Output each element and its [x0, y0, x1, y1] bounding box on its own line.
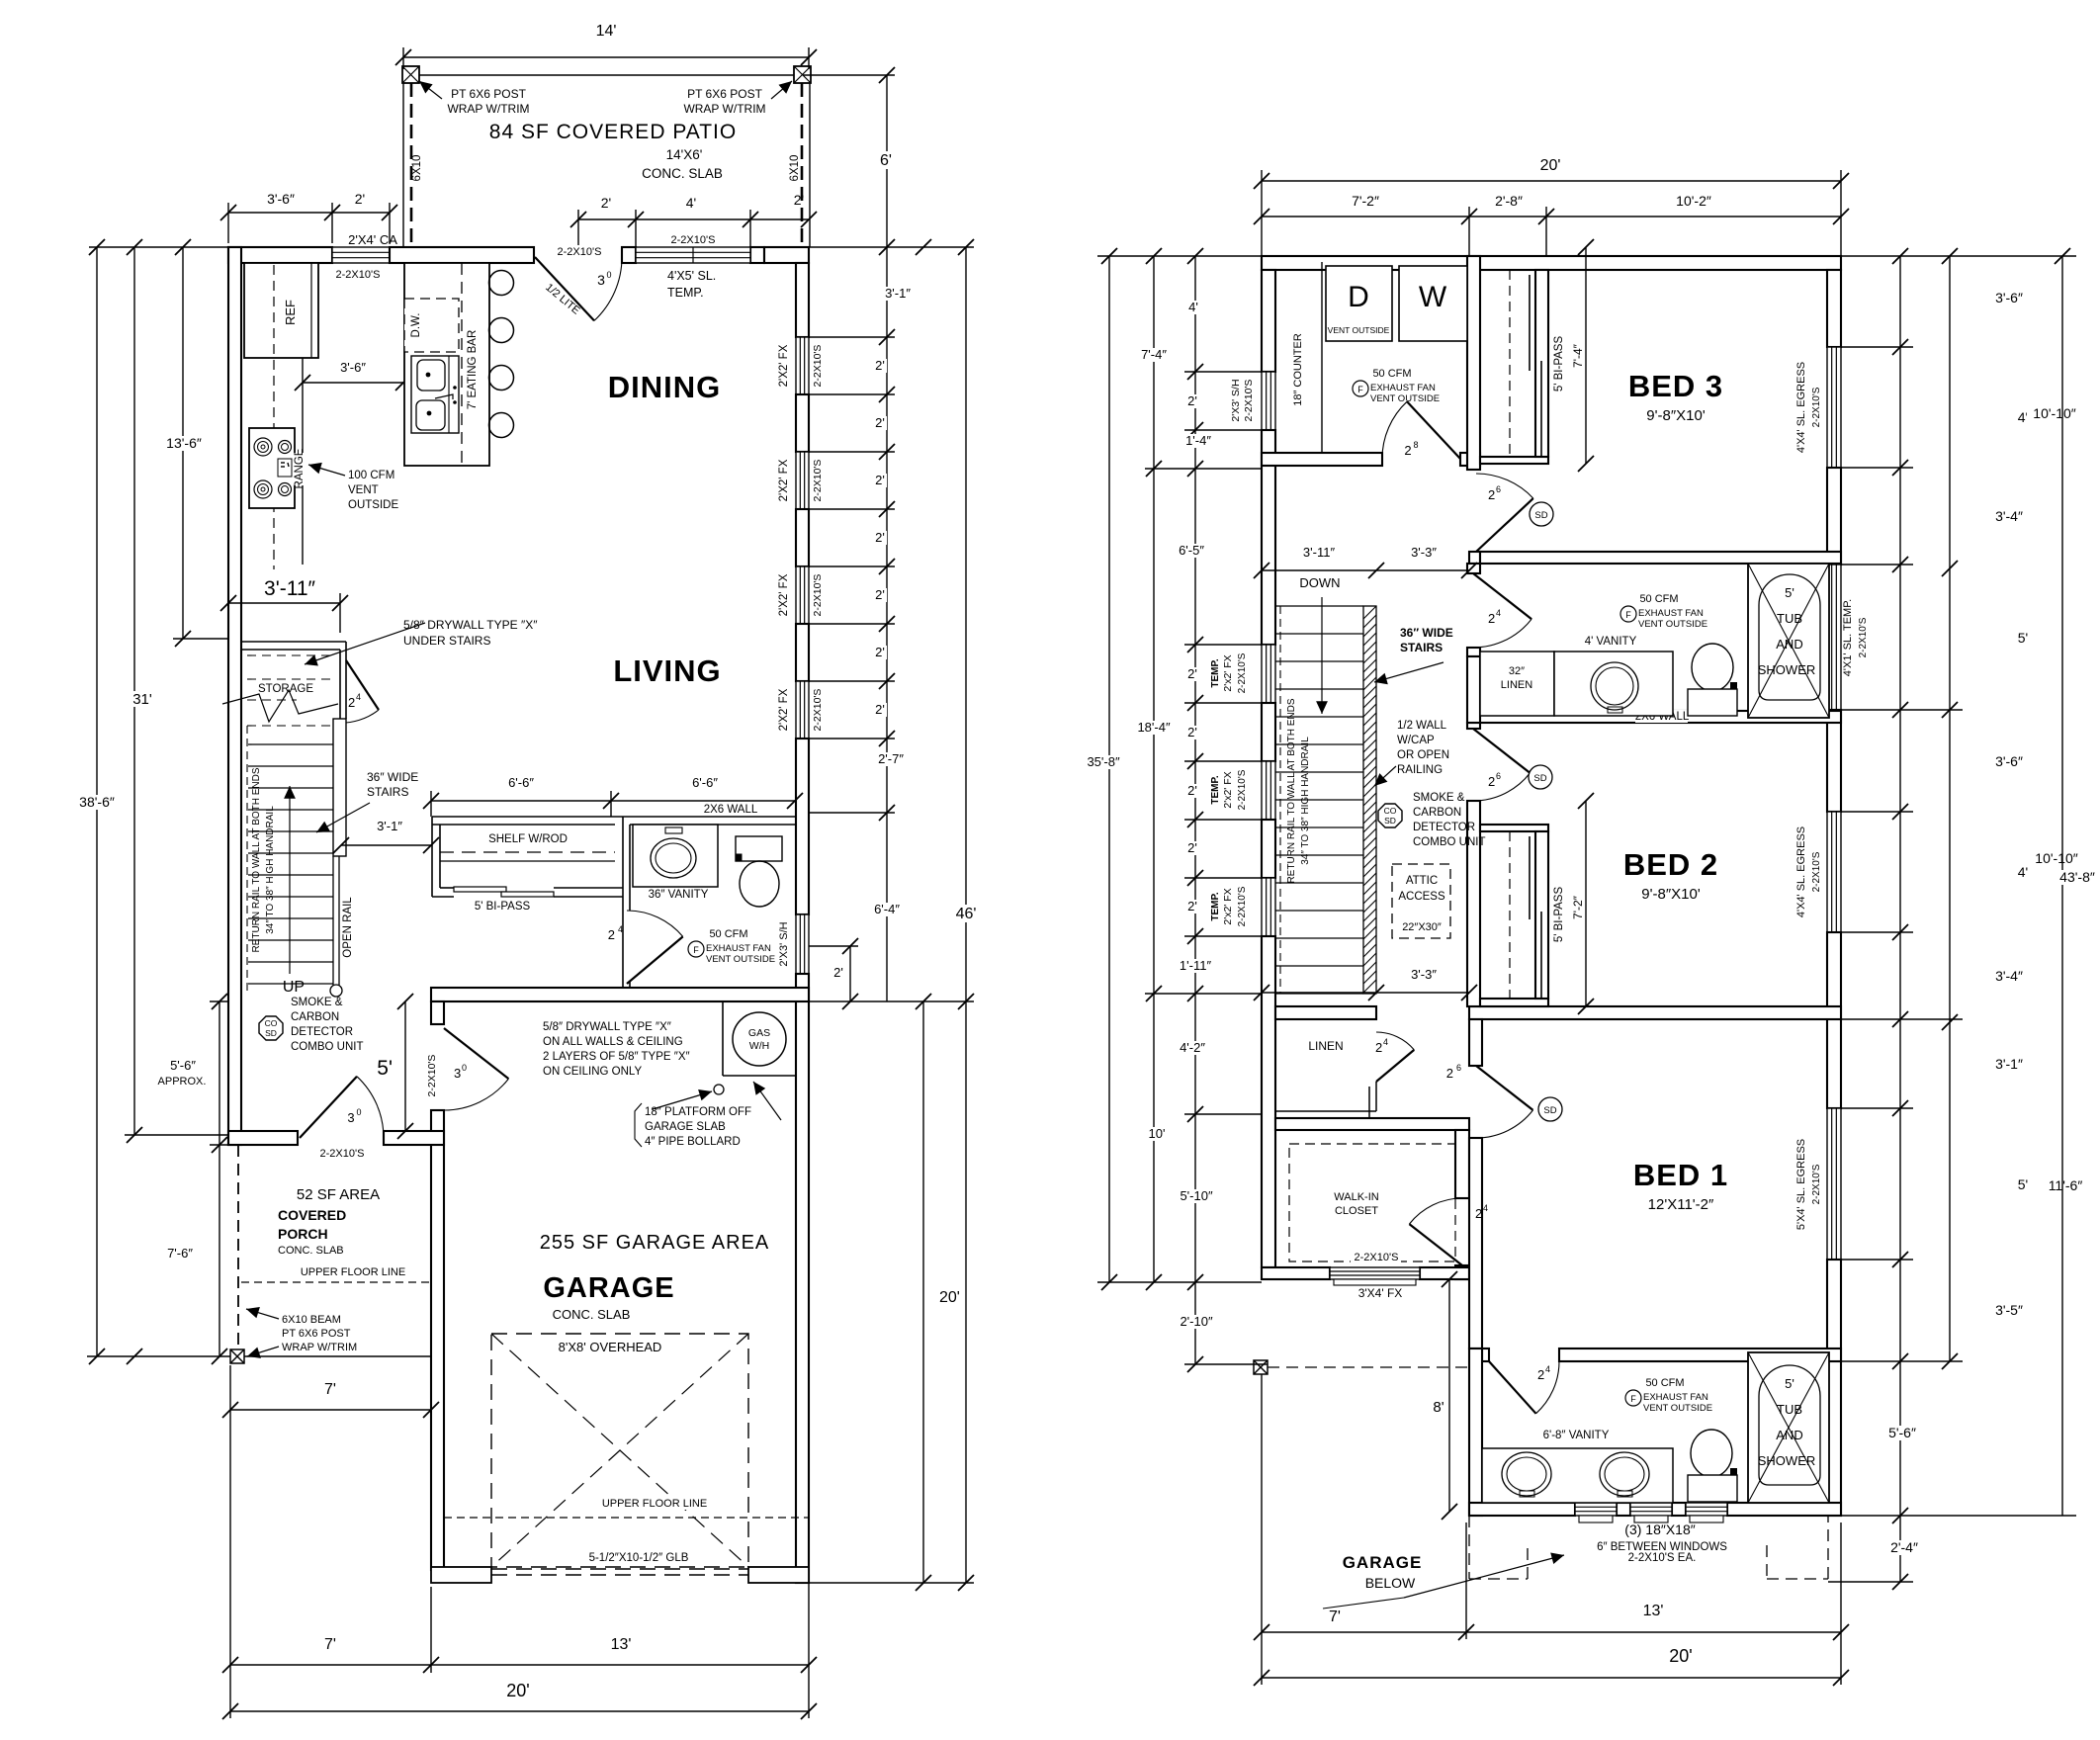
svg-text:APPROX.: APPROX. — [158, 1076, 207, 1087]
dim col x1922 — [1899, 256, 1901, 1582]
porch post X box — [230, 1349, 244, 1363]
label 18'-4 — [1131, 721, 1176, 735]
svg-text:35'-8″: 35'-8″ — [1087, 754, 1120, 769]
svg-text:2-2X10'S: 2-2X10'S — [558, 246, 602, 258]
svg-text:2'X3' S/H: 2'X3' S/H — [778, 921, 790, 966]
island sink outer — [411, 356, 459, 433]
svg-text:2'x2' FX: 2'x2' FX — [1222, 771, 1234, 808]
ext lines right rp — [1841, 255, 2076, 257]
svg-text:0: 0 — [606, 270, 611, 280]
svg-text:2: 2 — [348, 695, 355, 710]
svg-text:W: W — [1419, 281, 1447, 313]
garage top wall — [431, 988, 809, 1001]
svg-text:4″ PIPE BOLLARD: 4″ PIPE BOLLARD — [645, 1136, 741, 1148]
svg-text:11'-6″: 11'-6″ — [2049, 1177, 2083, 1193]
porch top wall left — [228, 1131, 298, 1145]
svg-text:2-2X10'S: 2-2X10'S — [1811, 387, 1822, 427]
svg-text:2'X2' FX: 2'X2' FX — [778, 459, 790, 501]
svg-text:2-2X10'S: 2-2X10'S — [1237, 652, 1248, 693]
dining window 2 — [796, 452, 809, 509]
dim col x2086 — [2061, 256, 2063, 1516]
svg-text:18'-4″: 18'-4″ — [1137, 720, 1171, 735]
svg-text:SD: SD — [1534, 510, 1547, 521]
bath1 left wall upper — [1467, 564, 1480, 573]
dim 20' line — [230, 1710, 809, 1712]
svg-text:2'X2' FX: 2'X2' FX — [778, 688, 790, 731]
svg-text:13': 13' — [611, 1636, 632, 1653]
svg-text:2: 2 — [1488, 611, 1495, 626]
svg-text:36″ WIDE: 36″ WIDE — [367, 770, 418, 784]
svg-text:F: F — [1625, 610, 1631, 620]
storage closet right wall — [339, 650, 341, 726]
svg-text:PT 6X6 POST: PT 6X6 POST — [687, 87, 762, 101]
right wall segA — [1827, 270, 1841, 347]
svg-text:STAIRS: STAIRS — [1400, 641, 1443, 654]
label 2' stair 0 — [1184, 667, 1199, 681]
svg-text:2'-7″: 2'-7″ — [878, 751, 904, 766]
bed3 closet bottom — [1480, 457, 1548, 464]
svg-text:2X6 WALL: 2X6 WALL — [704, 804, 758, 816]
svg-text:5'-10″: 5'-10″ — [1180, 1188, 1213, 1203]
label 5' a — [2015, 631, 2031, 646]
washer box — [1399, 266, 1467, 341]
svg-text:2-2X10'S: 2-2X10'S — [1237, 886, 1248, 926]
bath1 toilet — [1692, 644, 1733, 691]
svg-text:9'-8″X10': 9'-8″X10' — [1641, 886, 1701, 903]
dim 7-2/2-8/10-2 line — [1262, 216, 1841, 217]
bath top wall — [630, 824, 796, 826]
svg-text:6'-5″: 6'-5″ — [1179, 543, 1204, 558]
stair window 1 — [1262, 645, 1275, 703]
bed2 bottom wall — [1469, 1006, 1841, 1019]
svg-text:2'-10″: 2'-10″ — [1180, 1314, 1213, 1329]
label 3'-1 dining — [879, 287, 917, 301]
label 2-2X10'S door — [554, 246, 604, 258]
svg-text:0: 0 — [462, 1063, 467, 1073]
svg-text:CO: CO — [1384, 806, 1397, 816]
svg-text:GARAGE SLAB: GARAGE SLAB — [645, 1121, 726, 1133]
left wall seg4 — [1262, 820, 1275, 878]
svg-text:STORAGE: STORAGE — [258, 683, 313, 695]
svg-text:2': 2' — [1187, 666, 1197, 681]
bar stool 4 — [489, 413, 514, 438]
svg-text:BED 3: BED 3 — [1628, 369, 1723, 403]
svg-text:RETURN RAIL TO WALL AT BOTH EN: RETURN RAIL TO WALL AT BOTH ENDS — [1286, 698, 1297, 883]
SD circle bed1 — [1538, 1097, 1562, 1121]
label 2' win dim 6 — [872, 703, 887, 717]
svg-text:TEMP.: TEMP. — [1210, 892, 1221, 920]
bath2 sink1 — [1502, 1452, 1551, 1496]
patio door jamb left — [622, 247, 636, 263]
svg-text:W/H: W/H — [749, 1040, 769, 1052]
dim 3'-6in and 2' lines — [228, 212, 390, 214]
label 2X6 WALL rp — [1635, 710, 1688, 723]
svg-text:10': 10' — [1149, 1126, 1166, 1141]
dim col x1209 — [1194, 256, 1196, 1364]
svg-text:38'-6″: 38'-6″ — [79, 794, 115, 810]
dim 2' bath win — [849, 946, 851, 1001]
kitchen counter edge — [302, 358, 304, 565]
CO SD octagon — [259, 1016, 283, 1040]
hall closet walls — [432, 816, 623, 818]
bath door 2-4 — [627, 936, 683, 984]
label 2' stair 1 — [1184, 726, 1199, 739]
svg-text:DINING: DINING — [608, 370, 722, 404]
svg-text:2-2X10'S: 2-2X10'S — [1355, 1252, 1399, 1263]
svg-text:2'X3' S/H: 2'X3' S/H — [1230, 379, 1242, 421]
garage upper floor dashed — [444, 1517, 809, 1519]
svg-text:4': 4' — [686, 195, 696, 211]
svg-text:8'X8' OVERHEAD: 8'X8' OVERHEAD — [559, 1340, 662, 1354]
label 2-2X10S closet win — [1351, 1252, 1401, 1263]
label 4' b — [2015, 865, 2031, 880]
svg-text:2': 2' — [875, 530, 885, 545]
arrow beam — [246, 1309, 279, 1319]
svg-text:5': 5' — [377, 1057, 393, 1080]
ext line y1013 left — [210, 1000, 228, 1002]
svg-text:2': 2' — [875, 358, 885, 373]
bed3 closet bipass panels — [1529, 275, 1531, 371]
svg-text:2-2X10'S: 2-2X10'S — [812, 460, 824, 502]
range burner LT — [254, 438, 272, 456]
dishwasher dashed — [404, 299, 459, 352]
svg-text:WALK-IN: WALK-IN — [1334, 1191, 1378, 1203]
label 2' win dim 4 — [872, 588, 887, 602]
svg-text:2: 2 — [1488, 774, 1495, 789]
label 5'-10 — [1174, 1189, 1218, 1203]
kitchen upper cabinet dashed — [273, 265, 275, 569]
svg-text:DETECTOR: DETECTOR — [1413, 822, 1475, 833]
label 3'-4 a — [1989, 509, 2030, 524]
linen door 2-4 — [1376, 1050, 1414, 1082]
bed1 left wall — [1469, 1138, 1482, 1348]
bar stool 2 — [489, 318, 514, 343]
bed2 left wall — [1467, 801, 1480, 1006]
label UPPER FLOOR LINE garage — [604, 1498, 705, 1510]
closet bottom wall — [1262, 1267, 1330, 1279]
arrow half wall — [1374, 766, 1396, 786]
svg-text:CONC. SLAB: CONC. SLAB — [278, 1245, 344, 1257]
dim 2'/4'/2' lines — [578, 218, 809, 220]
svg-text:5' BI-PASS: 5' BI-PASS — [475, 901, 531, 913]
svg-text:2-2X10'S: 2-2X10'S — [1243, 380, 1255, 422]
right wall top seg — [796, 263, 809, 337]
bath1 door 2-4 — [1473, 573, 1531, 619]
attic access dashed — [1392, 864, 1450, 938]
svg-text:3'-5″: 3'-5″ — [1995, 1302, 2023, 1318]
laundry window 2'X3' S/H — [1262, 372, 1275, 430]
garage bottom wall right — [748, 1567, 809, 1583]
svg-text:3'-11″: 3'-11″ — [1303, 545, 1336, 560]
top wall seg mid — [390, 247, 534, 263]
ext line y1148 — [125, 1134, 228, 1136]
patio beam left dashed 6X10 — [410, 83, 413, 247]
svg-text:34″ TO 38″ HIGH HANDRAIL: 34″ TO 38″ HIGH HANDRAIL — [1300, 737, 1311, 865]
svg-text:3: 3 — [597, 272, 605, 288]
svg-text:6'-8″ VANITY: 6'-8″ VANITY — [1543, 1430, 1610, 1441]
svg-text:4: 4 — [1496, 608, 1501, 618]
svg-text:5' BI-PASS: 5' BI-PASS — [1553, 887, 1565, 943]
svg-text:36″ WIDE: 36″ WIDE — [1400, 626, 1453, 640]
closet top wall — [1275, 1118, 1469, 1130]
svg-text:VENT OUTSIDE: VENT OUTSIDE — [1328, 325, 1390, 335]
svg-text:10'-10″: 10'-10″ — [2033, 405, 2075, 421]
svg-text:14': 14' — [596, 23, 617, 40]
island overhang dashed — [461, 263, 463, 466]
right wall seg to bath — [796, 739, 809, 914]
svg-text:2': 2' — [875, 587, 885, 602]
svg-text:ON CEILING ONLY: ON CEILING ONLY — [543, 1066, 642, 1078]
svg-text:14'X6': 14'X6' — [666, 147, 703, 162]
svg-text:3: 3 — [454, 1066, 461, 1081]
svg-text:2-2X10'S: 2-2X10'S — [426, 1055, 438, 1097]
svg-text:(3) 18″X18″: (3) 18″X18″ — [1624, 1522, 1695, 1537]
svg-text:3'-11″: 3'-11″ — [264, 577, 315, 600]
label GLB — [579, 1551, 698, 1564]
label 3'-6 b — [1989, 754, 2030, 769]
garage below dashed right notch — [1766, 1545, 1768, 1579]
garage below dashed line — [1268, 1366, 1469, 1368]
label 1'-4 — [1180, 434, 1217, 448]
storage door 2-4 — [346, 660, 379, 710]
svg-text:DETECTOR: DETECTOR — [291, 1026, 353, 1038]
label 43'-8 — [2054, 870, 2100, 885]
wall break zigzag — [222, 690, 338, 722]
linen bottom wall — [1275, 1110, 1376, 1112]
laundry-closet wall — [1467, 256, 1480, 470]
svg-text:0: 0 — [356, 1107, 361, 1117]
svg-text:VENT: VENT — [348, 484, 379, 496]
ext top wall right — [809, 246, 974, 248]
svg-text:SHELF W/ROD: SHELF W/ROD — [488, 833, 568, 845]
arrow post — [247, 1347, 279, 1356]
range burner LB — [254, 480, 272, 498]
svg-text:13'-6″: 13'-6″ — [166, 435, 202, 451]
bath vanity — [633, 825, 718, 887]
dryer box — [1326, 266, 1392, 341]
label 2'-4 — [1884, 1540, 1925, 1555]
svg-text:50 CFM: 50 CFM — [1645, 1377, 1684, 1389]
svg-text:PT 6X6 POST: PT 6X6 POST — [282, 1328, 351, 1340]
CO SD octagon rp — [1378, 804, 1402, 827]
dim 7' 13' line — [230, 1664, 809, 1666]
svg-text:2': 2' — [1187, 899, 1197, 913]
svg-text:5': 5' — [2018, 630, 2028, 646]
linen32 box — [1480, 652, 1554, 716]
label 2'-7 — [872, 752, 910, 766]
dim 20' top line — [1262, 180, 1841, 182]
stair window 2 — [1262, 761, 1275, 820]
svg-text:VENT OUTSIDE: VENT OUTSIDE — [1370, 393, 1440, 404]
svg-text:20': 20' — [939, 1289, 960, 1306]
label 2' win dim 3 — [872, 531, 887, 545]
svg-text:50 CFM: 50 CFM — [709, 928, 747, 940]
svg-text:4': 4' — [1188, 300, 1198, 314]
svg-text:WRAP W/TRIM: WRAP W/TRIM — [447, 102, 529, 116]
label 10' — [1146, 1127, 1169, 1141]
refrigerator — [244, 263, 318, 358]
svg-text:RAILING: RAILING — [1397, 764, 1443, 776]
svg-text:F: F — [1357, 385, 1363, 394]
stairs newel circle — [330, 985, 342, 997]
dim 7'-4 closet — [1585, 247, 1587, 464]
range burner RT — [279, 441, 292, 454]
bath1 window 4'X1' — [1827, 565, 1841, 710]
svg-text:SMOKE &: SMOKE & — [291, 997, 343, 1008]
svg-text:10'-10″: 10'-10″ — [2035, 850, 2077, 866]
label 2' win dim 2 — [872, 474, 887, 487]
svg-text:6'-4″: 6'-4″ — [874, 902, 900, 916]
bed2 closet dashed — [1509, 831, 1511, 999]
storage closet top wall — [241, 641, 346, 643]
bed3 door 2-6 — [1476, 498, 1533, 552]
svg-text:WRAP W/TRIM: WRAP W/TRIM — [282, 1342, 357, 1353]
svg-text:7'-2″: 7'-2″ — [1571, 895, 1585, 919]
svg-text:6X10: 6X10 — [411, 155, 423, 182]
dim col x897 ticks — [886, 247, 888, 1001]
range center box — [278, 459, 292, 477]
tub2 outer — [1748, 1352, 1829, 1503]
bed2 door 2-6 — [1473, 729, 1531, 773]
svg-text:50 CFM: 50 CFM — [1372, 368, 1411, 380]
bed2 closet bottom wall — [1480, 999, 1548, 1006]
svg-text:4: 4 — [356, 692, 361, 702]
bar stool 3 — [489, 366, 514, 391]
overhead door dashed rect — [491, 1334, 748, 1567]
svg-text:32″: 32″ — [1509, 665, 1525, 677]
laundry bottom wall — [1262, 453, 1382, 466]
bed1 bottom wall — [1482, 1348, 1489, 1361]
dim 3'-1in line — [341, 844, 431, 846]
label 2' win dim 0 — [872, 359, 887, 373]
svg-text:5'X4' SL. EGRESS: 5'X4' SL. EGRESS — [1795, 1139, 1807, 1230]
down arrow — [1321, 597, 1323, 714]
svg-text:7' EATING BAR: 7' EATING BAR — [467, 330, 479, 410]
svg-text:10'-2″: 10'-2″ — [1676, 193, 1711, 209]
svg-text:2'-8″: 2'-8″ — [1495, 193, 1523, 209]
right wall segC — [1827, 710, 1841, 812]
svg-text:PT 6X6 POST: PT 6X6 POST — [451, 87, 526, 101]
porch left dashed beam — [237, 1145, 239, 1356]
svg-text:9'-8″X10': 9'-8″X10' — [1646, 407, 1706, 424]
garage left wall upper — [431, 1001, 444, 1024]
svg-text:EXHAUST FAN: EXHAUST FAN — [1643, 1392, 1708, 1403]
right wall segD — [1827, 932, 1841, 1108]
bottom wall segs w/ windows — [1469, 1503, 1575, 1516]
label 31' — [130, 691, 155, 707]
svg-text:2: 2 — [1488, 487, 1495, 502]
arrow garage below — [1323, 1598, 1404, 1609]
label D.W. — [409, 311, 422, 338]
stairs treads — [248, 743, 333, 745]
svg-text:20': 20' — [1669, 1646, 1692, 1666]
svg-text:2': 2' — [1187, 725, 1197, 739]
bottom window 2 — [1630, 1503, 1672, 1516]
ext lines bottom rp — [1261, 1374, 1263, 1685]
svg-text:VENT OUTSIDE: VENT OUTSIDE — [1638, 619, 1707, 630]
bath1 left wall lower — [1467, 648, 1480, 656]
dim 20' garage line — [922, 1001, 924, 1583]
svg-text:6X10 BEAM: 6X10 BEAM — [282, 1314, 341, 1326]
svg-text:OUTSIDE: OUTSIDE — [348, 499, 398, 511]
svg-text:LINEN: LINEN — [1308, 1039, 1343, 1053]
svg-text:DOWN: DOWN — [1299, 575, 1340, 590]
patio door window 4'X5' — [636, 247, 750, 263]
bed3 closet right wall — [1535, 270, 1548, 457]
garage below X box — [1254, 1360, 1268, 1374]
ext line garage bottom — [430, 1587, 432, 1673]
svg-text:3'-6″: 3'-6″ — [267, 191, 295, 207]
porch upper floor dashed — [241, 1281, 431, 1283]
svg-text:3'-3″: 3'-3″ — [1411, 545, 1437, 560]
tub2 X — [1748, 1352, 1829, 1503]
dining window 4 — [796, 681, 809, 739]
stairs up arrow — [289, 786, 291, 974]
svg-text:2'X2' FX: 2'X2' FX — [778, 573, 790, 616]
svg-text:F: F — [693, 945, 699, 955]
door 1/2 lite to patio — [535, 257, 594, 320]
bed2 closet right wall — [1535, 831, 1548, 999]
patio slab edge right — [809, 83, 811, 247]
svg-text:2: 2 — [1475, 1206, 1482, 1221]
svg-text:52 SF AREA: 52 SF AREA — [297, 1186, 380, 1203]
ext line top left — [89, 246, 228, 248]
stairs handrail dashed — [246, 726, 248, 994]
bipass door panels — [454, 887, 506, 892]
svg-text:6'-6″: 6'-6″ — [508, 775, 534, 790]
svg-text:STAIRS: STAIRS — [367, 785, 408, 799]
left wall seg1 — [1262, 270, 1275, 372]
dim 7' porch line — [230, 1409, 431, 1411]
svg-text:3'-3″: 3'-3″ — [1411, 967, 1437, 982]
bath1 bottom wall 2X6 — [1469, 711, 1841, 723]
label 6'-5 — [1173, 544, 1210, 558]
ext line y646 — [173, 638, 228, 640]
ext lines bottom porch — [229, 1365, 231, 1718]
svg-text:EXHAUST FAN: EXHAUST FAN — [1638, 608, 1704, 619]
label 4' a — [2015, 410, 2031, 425]
island sink basin top — [417, 360, 445, 391]
dining window 3 — [796, 566, 809, 624]
svg-text:7': 7' — [1329, 1609, 1341, 1625]
island outline — [404, 263, 489, 466]
bottom window 3 — [1686, 1503, 1727, 1516]
bath2 vanity — [1482, 1448, 1673, 1503]
dim col x1972 — [1949, 256, 1951, 1361]
gas wh circle — [733, 1012, 786, 1066]
dim 3'-6in sink line — [303, 382, 403, 384]
garage left wall lower — [431, 1110, 444, 1570]
bed2 closet bipass panels — [1529, 836, 1531, 919]
left wall seg2 — [1262, 430, 1275, 645]
svg-text:W/CAP: W/CAP — [1397, 735, 1435, 746]
svg-text:2': 2' — [875, 645, 885, 659]
svg-text:5' BI-PASS: 5' BI-PASS — [1553, 336, 1565, 392]
svg-text:1'-4″: 1'-4″ — [1185, 433, 1211, 448]
closet window 3'X4' FX — [1330, 1267, 1420, 1279]
svg-text:7'-6″: 7'-6″ — [167, 1246, 193, 1261]
label 35'-8 — [1081, 755, 1125, 769]
svg-text:2 LAYERS OF 5/8″ TYPE ″X″: 2 LAYERS OF 5/8″ TYPE ″X″ — [543, 1051, 690, 1063]
closet right wall lower — [1455, 1265, 1469, 1279]
svg-text:4'X1' SL. TEMP.: 4'X1' SL. TEMP. — [1842, 599, 1854, 676]
svg-text:5-1/2″X10-1/2″ GLB: 5-1/2″X10-1/2″ GLB — [589, 1552, 689, 1564]
svg-text:4'X4' SL. EGRESS: 4'X4' SL. EGRESS — [1795, 826, 1807, 917]
svg-text:8': 8' — [1433, 1399, 1444, 1416]
svg-text:4: 4 — [618, 924, 623, 934]
svg-text:3'-1″: 3'-1″ — [1995, 1056, 2023, 1072]
label 3'-1 c — [1989, 1057, 2030, 1072]
